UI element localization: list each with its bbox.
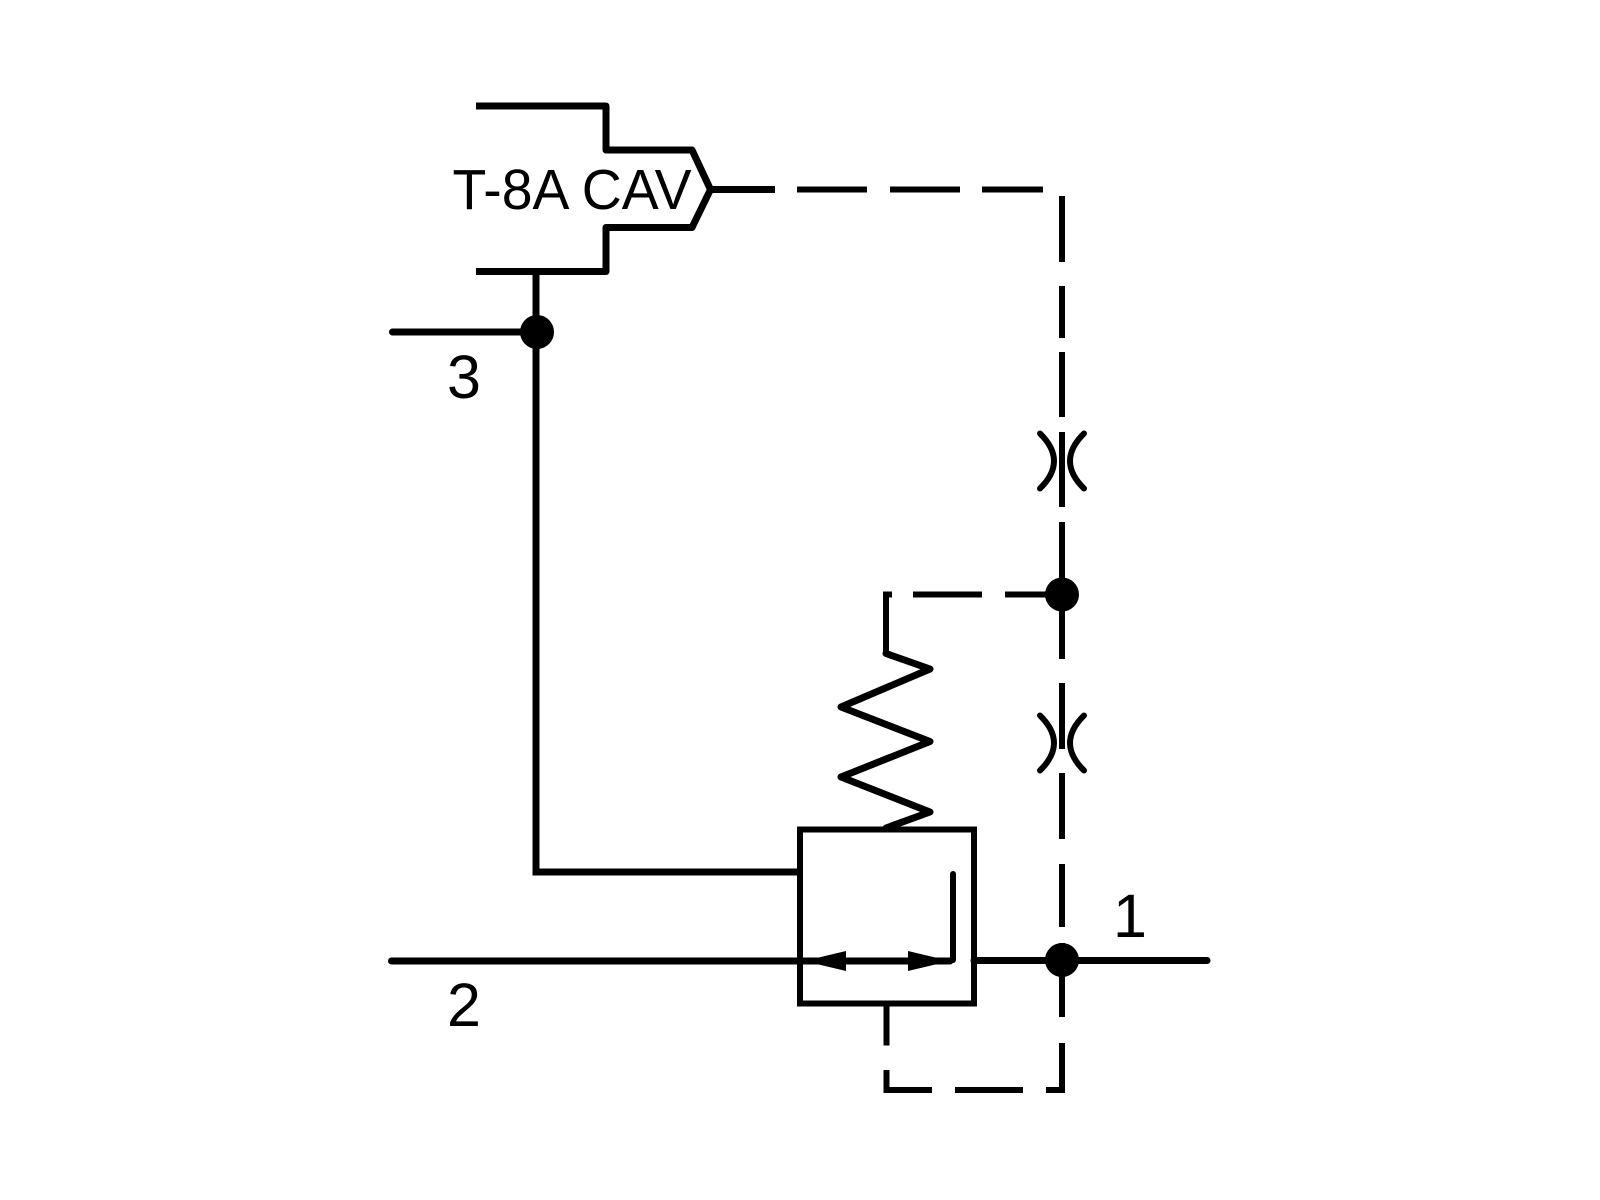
node 3 junction dot (520, 315, 554, 349)
pilot dashed wire down to node B (vertical run) (1059, 196, 1065, 659)
orifice upper (1040, 434, 1084, 489)
svg-text:2: 2 (447, 971, 481, 1039)
pilot dashed wire spring top to node B (horizontal run) (886, 595, 1046, 653)
pilot dashed wire from cavity tip (horizontal run) (797, 187, 1043, 193)
cavity tip stub (711, 186, 776, 193)
orifice lower (1040, 716, 1084, 771)
wire port 1 line (974, 957, 1207, 964)
pilot dashed wire node B to node 1 (vertical run) (1059, 683, 1065, 1017)
wire cavity stub to node 3 (533, 272, 540, 333)
arrowhead right (908, 951, 950, 971)
cavity T-8A outline (476, 106, 711, 272)
arrowhead left (804, 951, 846, 971)
spring (841, 654, 930, 829)
pilot dashed wire bottom loop to valve drain (887, 1003, 1063, 1090)
node 1 junction dot (1045, 943, 1079, 977)
svg-text:1: 1 (1113, 882, 1147, 950)
wire port 2 line and arrow shaft (392, 958, 951, 965)
node B junction dot (1045, 578, 1079, 612)
svg-text:T-8A CAV: T-8A CAV (453, 158, 692, 221)
wire port 3 line (393, 329, 538, 336)
svg-text:3: 3 (447, 343, 481, 411)
valve seat line (950, 874, 956, 960)
valve box U1 (800, 830, 974, 1004)
wire node 3 down and right to valve (536, 332, 803, 872)
